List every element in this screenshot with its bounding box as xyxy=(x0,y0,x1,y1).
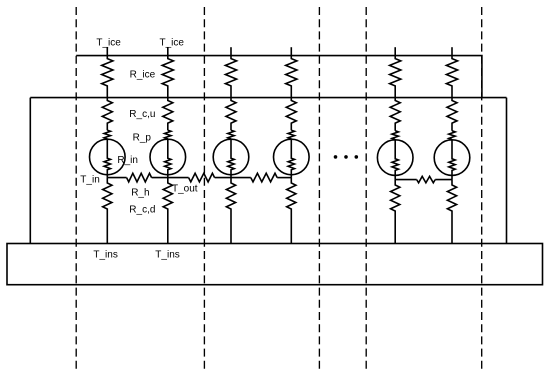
resistor R_c,d column 4 xyxy=(287,178,296,244)
resistor R_c,d column 5 xyxy=(391,180,400,244)
svg-text:R_c,u: R_c,u xyxy=(129,109,155,120)
resistor R_in column 1 xyxy=(104,139,110,177)
resistor R_c,u column 2 xyxy=(163,98,173,131)
dashed cell-boundary line 3 xyxy=(318,7,320,370)
resistor R_in column 6 xyxy=(449,140,455,180)
dashed cell-boundary line 4 xyxy=(365,7,367,370)
resistor R_ice column 1 xyxy=(102,56,113,98)
svg-text:R_in: R_in xyxy=(117,155,138,166)
source circle column 5 xyxy=(377,140,413,176)
wire: node rail segment from T_in node xyxy=(107,177,126,179)
resistor R_p column 3 xyxy=(228,130,234,139)
svg-text:R_c,d: R_c,d xyxy=(129,204,155,215)
wire: node rail segment xyxy=(215,177,251,179)
source circle column 1 xyxy=(90,139,126,175)
insulation box (T_ins slab) xyxy=(7,244,543,285)
resistor R_p column 5 xyxy=(392,131,398,140)
resistor R_c,d column 2 xyxy=(163,178,172,244)
node stub T_ice above rail, column 2 xyxy=(167,47,169,55)
wire: node rail segment through T_out node xyxy=(152,177,189,179)
wire: node rail segment to column 4 xyxy=(277,177,291,179)
resistor R_h between columns 2 and 3 xyxy=(189,173,215,182)
resistor R_p column 6 xyxy=(449,131,455,140)
resistor R_p column 4 xyxy=(288,130,294,139)
resistor R_ice column 6 xyxy=(446,56,457,98)
dashed cell-boundary line 5 xyxy=(481,7,483,370)
resistor R_ice column 4 xyxy=(286,56,297,98)
resistor R_p column 1 xyxy=(104,130,110,139)
source circle column 4 xyxy=(274,139,310,175)
dashed cell-boundary line 2 xyxy=(203,7,205,370)
resistor R_c,d column 3 xyxy=(226,178,235,244)
resistor R_c,d column 1 xyxy=(103,178,112,244)
svg-text:T_ice: T_ice xyxy=(159,37,184,48)
resistor R_in column 2 xyxy=(165,139,171,177)
resistor R_c,d column 6 xyxy=(447,180,456,244)
resistor R_p column 2 xyxy=(165,130,171,139)
svg-text:T_ins: T_ins xyxy=(93,250,117,261)
resistor R_c,u column 3 xyxy=(226,98,236,131)
resistor R_h between columns 5 and 6 xyxy=(417,176,436,182)
resistor R_ice column 2 xyxy=(162,56,173,98)
svg-text:R_p: R_p xyxy=(133,133,152,144)
resistor R_in column 3 xyxy=(228,139,234,177)
source circle column 2 xyxy=(150,139,186,175)
wire: T_ice top rail xyxy=(76,56,482,98)
resistor R_ice column 3 xyxy=(225,56,236,98)
resistor R_ice column 5 xyxy=(390,56,401,98)
resistor R_c,u column 6 xyxy=(447,98,457,131)
resistor R_in column 4 xyxy=(288,139,294,177)
svg-text:T_ins: T_ins xyxy=(155,250,179,261)
dashed cell-boundary line 1 xyxy=(75,7,77,370)
svg-text:T_out: T_out xyxy=(172,184,198,195)
svg-text:T_ice: T_ice xyxy=(96,37,121,48)
resistor R_h between columns 3 and 4 xyxy=(251,173,277,182)
node stub T_ice above rail, column 6 xyxy=(451,47,453,55)
svg-text:R_ice: R_ice xyxy=(130,70,156,81)
svg-text:R_h: R_h xyxy=(131,188,149,199)
resistor R_h between columns 1 and 2 xyxy=(127,173,152,182)
resistor R_c,u column 4 xyxy=(286,98,296,131)
resistor R_in column 5 xyxy=(392,140,398,180)
wire: plate left edge xyxy=(29,98,31,244)
source circle column 6 xyxy=(434,140,470,176)
source circle column 3 xyxy=(213,139,249,175)
node stub T_ice above rail, column 5 xyxy=(394,47,396,55)
node stub T_ice above rail, column 3 xyxy=(230,47,232,55)
ellipsis dots (repeated unit cells) xyxy=(334,155,338,159)
node stub T_ice above rail, column 4 xyxy=(290,47,292,55)
wire: node rail column 5 side xyxy=(395,179,417,181)
wire: plate top edge xyxy=(30,97,506,99)
wire: node rail column 6 side xyxy=(435,179,452,181)
resistor R_c,u column 5 xyxy=(390,98,400,131)
resistor R_c,u column 1 xyxy=(102,98,112,131)
wire: plate right edge xyxy=(506,98,508,244)
svg-text:T_in: T_in xyxy=(80,174,99,185)
node stub T_ice above rail, column 1 xyxy=(106,47,108,55)
